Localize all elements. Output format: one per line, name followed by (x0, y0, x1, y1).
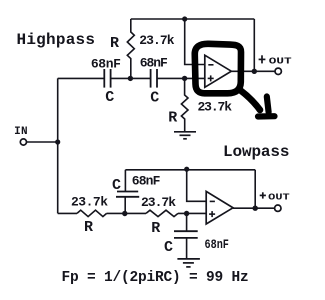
svg-text:IN: IN (14, 126, 28, 138)
svg-text:23.7k: 23.7k (198, 100, 233, 115)
svg-text:23.7k: 23.7k (139, 33, 174, 48)
svg-text:68nF: 68nF (91, 56, 121, 71)
svg-text:C: C (150, 90, 159, 107)
svg-text:C: C (105, 89, 114, 106)
svg-text:23.7k: 23.7k (71, 194, 108, 209)
svg-text:Highpass: Highpass (17, 31, 96, 49)
svg-text:C: C (112, 177, 121, 194)
svg-text:R: R (168, 109, 177, 126)
svg-text:68nF: 68nF (140, 56, 168, 71)
svg-text:Fp = 1/(2piRC) = 99 Hz: Fp = 1/(2piRC) = 99 Hz (62, 270, 249, 286)
svg-text:C: C (164, 239, 173, 256)
svg-text:23.7k: 23.7k (141, 195, 176, 210)
svg-text:68nF: 68nF (205, 237, 230, 252)
svg-text:R: R (151, 220, 160, 237)
svg-text:68nF: 68nF (132, 174, 161, 189)
svg-text:R: R (84, 219, 93, 236)
svg-text:Lowpass: Lowpass (223, 143, 290, 161)
svg-text:OUT: OUT (268, 191, 290, 202)
svg-text:R: R (110, 35, 119, 52)
svg-text:OUT: OUT (269, 56, 292, 67)
